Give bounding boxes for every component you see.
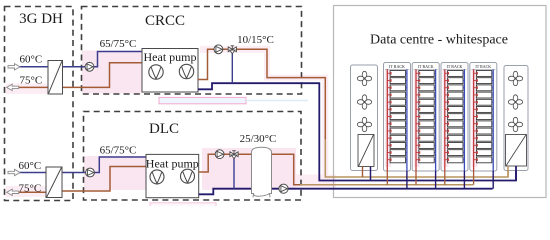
fan 3 CRAH right [508, 117, 522, 131]
svg-text:Data centre - whitespace: Data centre - whitespace [370, 33, 508, 48]
dashed box DLC [84, 112, 302, 201]
wire CRCC hot out to pump and valve (brown) [198, 49, 325, 140]
svg-text:60°C: 60°C [20, 54, 43, 66]
wire rack 3 supply drop (brown) [444, 171, 446, 185]
heat exchanger upper (3G DH) [48, 61, 63, 95]
buffer tank DLC [252, 147, 272, 197]
svg-text:IT RACK: IT RACK [418, 64, 434, 69]
compressor 1 CRCC [149, 65, 163, 79]
wire brown lower HX to heat pump [62, 167, 146, 192]
pink halo CRCC drop [264, 46, 270, 81]
svg-text:IT RACK: IT RACK [475, 64, 491, 69]
svg-text:IT RACK: IT RACK [389, 64, 405, 69]
fan 2 CRAH right [508, 95, 522, 109]
pink highlight region 3G DH upper return [6, 84, 48, 95]
wire 60C supply lower (blue) [8, 172, 46, 174]
IT rack 3 [441, 63, 468, 172]
pink halo CRCC pump line [200, 46, 269, 53]
wire CRAH right return stub (navy) [515, 166, 517, 181]
heat pump unit DLC [146, 154, 199, 197]
wire rack 2 supply drop (brown) [415, 171, 417, 185]
svg-text:10/15°C: 10/15°C [237, 34, 274, 46]
flow arrow 60C lower (right) [8, 169, 20, 175]
pump P5 DLC distribution [279, 184, 288, 193]
pink highlight region DLC right [202, 148, 296, 190]
wire CRCC chilled return (navy) [198, 83, 516, 180]
wire blue lower HX to pump and heat pump [62, 172, 86, 174]
compressor 1 DLC [150, 170, 164, 184]
compressor 2 CRCC [179, 64, 193, 78]
fan 1 CRAH left [357, 71, 371, 85]
pink halo CRCC vertical to mains [322, 75, 328, 180]
pump P1 CRCC condenser [85, 62, 94, 71]
fan 3 CRAH left [357, 117, 371, 131]
svg-text:65/75°C: 65/75°C [100, 38, 137, 50]
svg-text:DLC: DLC [149, 121, 179, 137]
fan 1 CRAH right [508, 71, 522, 85]
wire rack 1 return drop (navy) [406, 171, 408, 189]
pump P2 CRCC chilled [214, 45, 223, 54]
pink highlight region CRCC left [82, 51, 142, 94]
wire CRAH left supply stub (tan) [362, 167, 364, 178]
svg-text:CRCC: CRCC [145, 13, 185, 29]
wire rack 4 return drop (navy) [492, 171, 494, 189]
svg-text:IT RACK: IT RACK [447, 64, 463, 69]
pink highlight region 3G DH lower return [6, 186, 46, 197]
wire DLC hot main 3 (tan) [300, 184, 473, 186]
solid box data centre [334, 6, 547, 198]
svg-text:Heat pump: Heat pump [146, 156, 199, 170]
IT rack 1 [384, 63, 411, 172]
svg-text:Heat pump: Heat pump [144, 50, 197, 64]
wire CRAH right supply stub (tan) [507, 166, 509, 177]
svg-text:75°C: 75°C [19, 183, 42, 195]
flow arrow 60C upper (right) [8, 64, 20, 70]
heat pump unit CRCC [142, 49, 198, 93]
CRAH unit left [351, 65, 378, 171]
pink halo CRCC lower run [264, 75, 328, 81]
pink highlight region DLC left [84, 156, 146, 190]
svg-text:3G DH: 3G DH [19, 11, 63, 27]
faint line right of pink rect [246, 100, 308, 102]
pink rect below DLC heat pump [150, 203, 216, 208]
IT rack 2 [412, 63, 439, 172]
dashed box CRCC [82, 7, 302, 95]
wire DLC hot out via pump valve tank (brown) [199, 154, 301, 185]
svg-text:65/75°C: 65/75°C [100, 145, 137, 157]
svg-text:60°C: 60°C [19, 160, 42, 172]
flow arrow 75C lower (left) [7, 189, 19, 195]
heat exchanger CRAH right [506, 135, 527, 167]
wire 75C return upper (brown) [7, 86, 48, 88]
CRAH unit right [504, 66, 528, 171]
wire rack 4 supply drop (brown) [473, 171, 475, 185]
valve V1 CRCC three-way [228, 46, 236, 54]
flow arrow 75C upper (left) [7, 84, 19, 90]
wire DLC chilled return (navy) [199, 189, 493, 195]
wire brown upper HX to heat pump [63, 63, 143, 88]
svg-text:25/30°C: 25/30°C [240, 133, 277, 145]
wire rack 2 return drop (navy) [435, 171, 437, 189]
heat exchanger CRAH left [358, 135, 374, 167]
wire rack 1 supply drop (brown) [386, 171, 388, 185]
heat exchanger lower (3G DH) [46, 167, 62, 198]
pink halo mains into data centre [296, 175, 336, 188]
wire 60C supply upper (blue) [8, 66, 48, 68]
pump P4 DLC chilled [215, 150, 224, 159]
wire 75C return lower (brown) [7, 191, 46, 193]
dashed box 3G DH [5, 7, 74, 201]
wire CRCC valve branch (blue stem) [231, 49, 233, 83]
wire CRAH left return stub (navy) [370, 167, 372, 181]
valve V2 DLC three-way [230, 151, 238, 159]
svg-text:75°C: 75°C [20, 75, 43, 87]
pump P3 DLC condenser [86, 168, 95, 177]
wire CRCC hot main 1 (tan) [325, 139, 508, 177]
fan 2 CRAH left [357, 95, 371, 109]
wire DLC valve branch (blue stem) [233, 154, 235, 189]
IT rack 4 [470, 63, 497, 172]
compressor 2 DLC [181, 169, 195, 183]
wire blue upper HX to heat pump [63, 66, 86, 68]
wire rack 3 return drop (navy) [463, 171, 465, 189]
pink rect between CRCC and DLC [159, 97, 246, 103]
